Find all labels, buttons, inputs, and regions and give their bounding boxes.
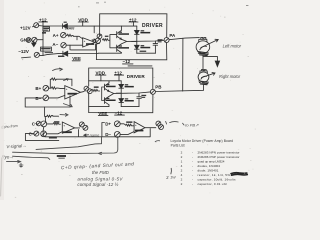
motor M1 (left) terminal cap <box>199 37 207 41</box>
transistor Q1 label smudge <box>118 32 129 35</box>
wire +12 label underline and rail <box>39 22 48 26</box>
svg-text:−12V: −12V <box>18 49 29 54</box>
terminal input circle box B inner <box>87 89 92 94</box>
node ±12 label (box A) <box>129 17 137 22</box>
wire emitters join box B to PB <box>109 91 150 96</box>
diode D6 (box A lower) <box>135 45 140 49</box>
paper shading left edge <box>0 0 4 200</box>
wire base join box B <box>102 87 105 101</box>
text parts list header line2 <box>171 143 185 147</box>
terminal D- <box>105 132 111 137</box>
ground at motors <box>203 56 220 66</box>
svg-text:Parts List: Parts List <box>171 143 185 147</box>
wire Q3 collector to VDD rail <box>89 81 122 83</box>
ground symbol <box>32 41 36 46</box>
terminal C- <box>29 131 35 136</box>
motor M2 (right) terminal cap <box>200 69 208 73</box>
svg-text:diodes, 1N4004: diodes, 1N4004 <box>198 164 221 168</box>
svg-text:DRIVER: DRIVER <box>127 74 146 79</box>
text handwritten to PB <box>185 123 199 128</box>
svg-text:A−: A− <box>52 42 58 47</box>
svg-text:quad op amp LM324: quad op amp LM324 <box>198 160 225 164</box>
svg-text:+: + <box>84 39 86 43</box>
ground small bottom left <box>19 163 23 167</box>
svg-text:GND: GND <box>20 38 31 43</box>
diode D5 (box A upper) <box>135 30 140 34</box>
diode D7 (box B upper) <box>119 84 124 88</box>
transistor Q4 label smudge <box>106 98 116 101</box>
svg-text:PB: PB <box>155 84 162 89</box>
wire VEE rail to box A <box>68 53 98 55</box>
wire B- to op-amp <box>49 95 65 98</box>
driver box B outline <box>89 68 153 113</box>
wire internal VEE rail B right part <box>121 106 139 108</box>
text parts item 1 <box>181 151 240 155</box>
wire op-amp C output <box>75 127 80 129</box>
wire Q4 collector to internal VEE rail B <box>89 105 109 107</box>
wire op-amp B output to box B input <box>81 90 85 93</box>
wire C- to op-amp <box>47 132 63 134</box>
diode D6 label smudge <box>140 45 150 48</box>
motor M2 (right) <box>198 72 209 82</box>
wire V-signal <box>36 137 102 149</box>
node -12 label (box B bottom) <box>115 111 123 116</box>
wire Ryo long <box>13 156 50 159</box>
wire B feedback loop with resistor R4 <box>50 78 72 88</box>
wire D block down to arrow wire <box>13 137 118 155</box>
handwritten 1W correction stroke <box>170 168 173 174</box>
text handwritten note line 3 <box>77 181 118 187</box>
text Right motor (handwritten) <box>219 74 241 79</box>
svg-text:D−: D− <box>105 132 111 137</box>
wire C feedback top loop <box>45 115 58 121</box>
svg-text:analog Signal 0-5V: analog Signal 0-5V <box>77 177 123 182</box>
wire Q1 collector to VDD rail <box>120 26 122 30</box>
wire PA junction down to return wire <box>182 38 184 91</box>
node VDD label <box>78 17 88 22</box>
svg-text:resistor, 1k, 1/4, 5%: resistor, 1k, 1/4, 5% <box>198 173 231 177</box>
wire handwritten dash near header <box>155 140 159 143</box>
wire A feedback below <box>70 44 96 50</box>
wire arrow scribble on loop <box>63 104 72 107</box>
node ±12 label (box B) <box>114 71 122 76</box>
node VDD label (box B) <box>96 71 106 76</box>
terminal input circle box A upper <box>97 34 102 39</box>
wire op-amp A supply stub <box>93 26 95 33</box>
diode D5 label smudge <box>140 30 150 33</box>
svg-text:to PB↗: to PB↗ <box>185 123 199 128</box>
terminal circle 2 after D op-amp <box>159 125 164 130</box>
diode D1 1N5401 on VDD rail <box>63 24 68 29</box>
scan streak artifact left edge <box>1 158 2 196</box>
text handwritten V-signal <box>6 143 26 149</box>
motor M1 (left) <box>196 41 210 53</box>
wire -12V to VEE rail <box>39 54 63 56</box>
text handwritten 3 1W <box>166 175 176 180</box>
transistor Q3 (NPN, box B) <box>105 83 110 92</box>
svg-text:-: - <box>192 169 193 173</box>
svg-text:compd Signal -12 ½: compd Signal -12 ½ <box>77 181 118 187</box>
resistor R3 B+ series <box>49 87 65 89</box>
svg-text:-: - <box>192 178 193 182</box>
svg-text:+: + <box>66 87 68 91</box>
text handwritten Ryo <box>2 155 14 160</box>
diode D4 on VEE rail <box>63 51 68 56</box>
wire to PB arrow scribble <box>166 121 184 125</box>
text handwritten Echo from <box>1 124 18 130</box>
wire rail +12 down through GND row <box>42 34 44 56</box>
diode D8 label smudge <box>125 98 134 101</box>
text DRIVER (box A) <box>142 23 163 29</box>
wire A- to op-amp <box>66 44 83 46</box>
capacitor C2 (box B) <box>137 93 142 107</box>
terminal circle after C op-amp <box>79 122 84 127</box>
svg-text:A+: A+ <box>53 33 59 38</box>
transistor Q3 label smudge <box>106 84 116 87</box>
diode D1 2x mark <box>64 22 67 23</box>
wire Q2 collector to internal VEE rail <box>98 52 121 55</box>
transistor Q2 label smudge <box>118 45 129 48</box>
terminal C- second circle <box>41 131 47 137</box>
terminal GND second circle <box>32 37 37 42</box>
transistor Q1 2N6283 (NPN, box A) <box>117 30 122 39</box>
wire C feedback below loop <box>43 123 150 137</box>
svg-text:Right motor: Right motor <box>219 74 241 79</box>
terminal PA <box>169 33 176 38</box>
wire loop bottom down to C feedback <box>44 107 46 116</box>
svg-text:2: 2 <box>181 169 183 173</box>
text handwritten note line 1 <box>61 161 135 170</box>
transistor Q4 (PNP, box B) <box>104 96 109 104</box>
diode D7 label smudge <box>125 84 134 87</box>
svg-text:the FMD: the FMD <box>92 170 110 175</box>
svg-text:1N5401: 1N5401 <box>65 27 75 31</box>
svg-text:2: 2 <box>181 178 183 182</box>
wire op-amp A output to box A input <box>92 39 96 43</box>
svg-text:−12: −12 <box>123 59 131 64</box>
svg-text:1: 1 <box>181 160 183 164</box>
node +12 rail label <box>39 17 47 22</box>
terminal circle 2 after C op-amp <box>83 125 88 130</box>
terminal B+ <box>35 86 41 91</box>
op-amp U1A label LM324 smudge <box>86 43 94 45</box>
wire diode string box B <box>116 81 121 99</box>
terminal circle after D op-amp <box>156 121 161 126</box>
wire A+ node to op-amp <box>73 36 83 40</box>
terminal C+ <box>32 122 38 127</box>
terminal -12V <box>18 49 29 54</box>
wire motor M2 arrow <box>201 73 215 78</box>
diode D8 (box B lower) <box>119 99 124 103</box>
svg-text:2: 2 <box>181 151 183 155</box>
wire op-amp D output <box>145 127 156 129</box>
resistor R6 C+ series <box>47 123 61 125</box>
terminal PB <box>155 84 162 89</box>
text parts item 5 <box>181 169 219 173</box>
svg-text:4: 4 <box>181 164 183 168</box>
op-amp U1C <box>62 122 74 133</box>
paper noise specks <box>4 2 256 198</box>
resistor R6 label smudge <box>54 121 59 122</box>
wire PA to left motor <box>169 38 199 40</box>
text DRIVER (box B) <box>127 74 146 79</box>
wire emitters join box A to PA <box>121 39 163 44</box>
op-amp U1D label LM324 smudge <box>135 130 143 132</box>
text parts item 3 <box>181 160 225 164</box>
svg-text:-: - <box>192 151 193 155</box>
speck marks top <box>78 2 248 7</box>
node VEE label (box B bottom) <box>98 111 107 116</box>
svg-text:PA: PA <box>169 33 176 38</box>
svg-text:-: - <box>192 164 193 168</box>
wire C feedback arrow scribble above <box>60 113 68 116</box>
svg-text:+: + <box>135 123 137 127</box>
wire diode string box A <box>132 26 137 45</box>
wire motor M2 down and left to PB <box>156 85 204 92</box>
resistor R1 between A+ and op-amp <box>66 34 73 36</box>
wire D+ to resistor <box>120 124 126 125</box>
op-amp U1B <box>65 86 81 99</box>
svg-text:D+: D+ <box>105 121 111 126</box>
motor M2 base hatch <box>199 81 208 85</box>
terminal B- <box>35 96 41 101</box>
terminal input circle box B outer <box>84 86 89 91</box>
capacitor C2 label smudge <box>141 95 146 98</box>
svg-text:-: - <box>192 182 193 186</box>
wire internal VEE rail A right part <box>137 52 156 54</box>
wire base join box A <box>110 35 117 48</box>
terminal input circle box A lower <box>95 38 100 43</box>
wire GND to rail <box>37 39 43 41</box>
svg-text:2: 2 <box>181 182 183 186</box>
wire handwritten arrow above B loop <box>53 68 63 71</box>
resistor label smudge on Ryo wire <box>57 155 66 159</box>
wire C- left loop <box>25 134 58 141</box>
terminal +12V <box>20 25 31 30</box>
terminal A+ <box>53 33 59 38</box>
text parts item 4 <box>181 164 221 168</box>
diode D4 label smudge <box>58 56 64 57</box>
diode D2 on +12 vertical feed with label box <box>43 27 50 31</box>
resistor label smudge on C loop <box>49 137 57 139</box>
resistor R7 label smudge <box>126 121 132 123</box>
node -12 label (box A bottom) <box>123 59 131 64</box>
svg-text:B+: B+ <box>35 86 41 91</box>
svg-text:1W: 1W <box>170 175 176 179</box>
diode label smudge on rail A <box>140 51 147 52</box>
text parts item 6 <box>181 173 231 177</box>
svg-text:2N6286 PNP power transistor: 2N6286 PNP power transistor <box>198 155 240 159</box>
svg-text:diode, 1N5401: diode, 1N5401 <box>198 169 219 173</box>
svg-text:4: 4 <box>181 173 183 177</box>
resistor R4 arrow scribble <box>64 79 69 81</box>
svg-text:name: name <box>90 132 101 137</box>
scribble blob on item 6 <box>231 173 247 176</box>
dash below -12V <box>22 56 31 59</box>
text handwritten note line 1b <box>92 170 110 175</box>
resistor R5 base resistor box B <box>92 89 100 91</box>
svg-text:-: - <box>192 155 193 159</box>
wire motor M1 down to motor M2 <box>202 56 204 71</box>
terminal A- <box>52 42 58 47</box>
text parts item 8 <box>181 182 227 186</box>
capacitor C1 (box A) <box>153 41 158 53</box>
terminal GND <box>20 38 31 43</box>
text handwritten name scribble <box>84 134 89 136</box>
diode D1 label smudge <box>65 27 75 31</box>
resistor R2 base resistor box A <box>102 39 109 41</box>
transistor Q2 2N6286 (PNP, box A) <box>117 44 122 53</box>
text parts list header <box>171 139 234 143</box>
wire small arrow bottom left <box>7 160 21 163</box>
capacitor C1 label smudge <box>158 39 163 42</box>
svg-text:capacitor, 0.01 ufd: capacitor, 0.01 ufd <box>198 182 227 186</box>
wire VDD rail into driver box A <box>67 25 136 27</box>
svg-text:-: - <box>192 160 193 164</box>
svg-text:DRIVER: DRIVER <box>142 23 163 29</box>
op-amp U1C label LM324 smudge <box>63 131 72 133</box>
text handwritten note line 2 <box>77 177 123 182</box>
svg-text:-: - <box>192 173 193 177</box>
wire D- to op-amp <box>120 132 134 135</box>
op-amp U1B label LM324 smudge <box>68 93 77 95</box>
op-amp U1D <box>134 122 145 133</box>
text parts item 2 <box>181 155 240 159</box>
diode D3 label box on VEE feed <box>41 47 52 51</box>
terminal D+ <box>105 121 111 126</box>
terminal C+ second circle <box>41 121 47 127</box>
svg-text:+12V: +12V <box>20 25 31 30</box>
resistor R7 D+ series <box>126 124 134 126</box>
svg-text:Loyola Motor Driver (Power Amp: Loyola Motor Driver (Power Amp) Board <box>171 139 234 143</box>
wire +12V to VDD rail <box>39 25 63 27</box>
text Left motor (handwritten) <box>223 44 242 49</box>
node VEE label <box>72 56 81 61</box>
svg-text:+: + <box>63 123 65 127</box>
driver box A outline <box>96 14 166 60</box>
svg-text:Left motor: Left motor <box>223 44 242 49</box>
svg-text:2: 2 <box>181 155 183 159</box>
svg-text:2N6283 NPN power transistor: 2N6283 NPN power transistor <box>198 151 240 155</box>
op-amp U1A <box>83 38 95 47</box>
wire B- ground loop <box>25 96 70 107</box>
wire motor M1 arrow <box>201 39 218 47</box>
svg-text:capacitor, 10ufd, 16volts: capacitor, 10ufd, 16volts <box>198 178 236 182</box>
text parts item 7 <box>181 178 236 182</box>
motor M1 base hatch <box>198 52 209 56</box>
